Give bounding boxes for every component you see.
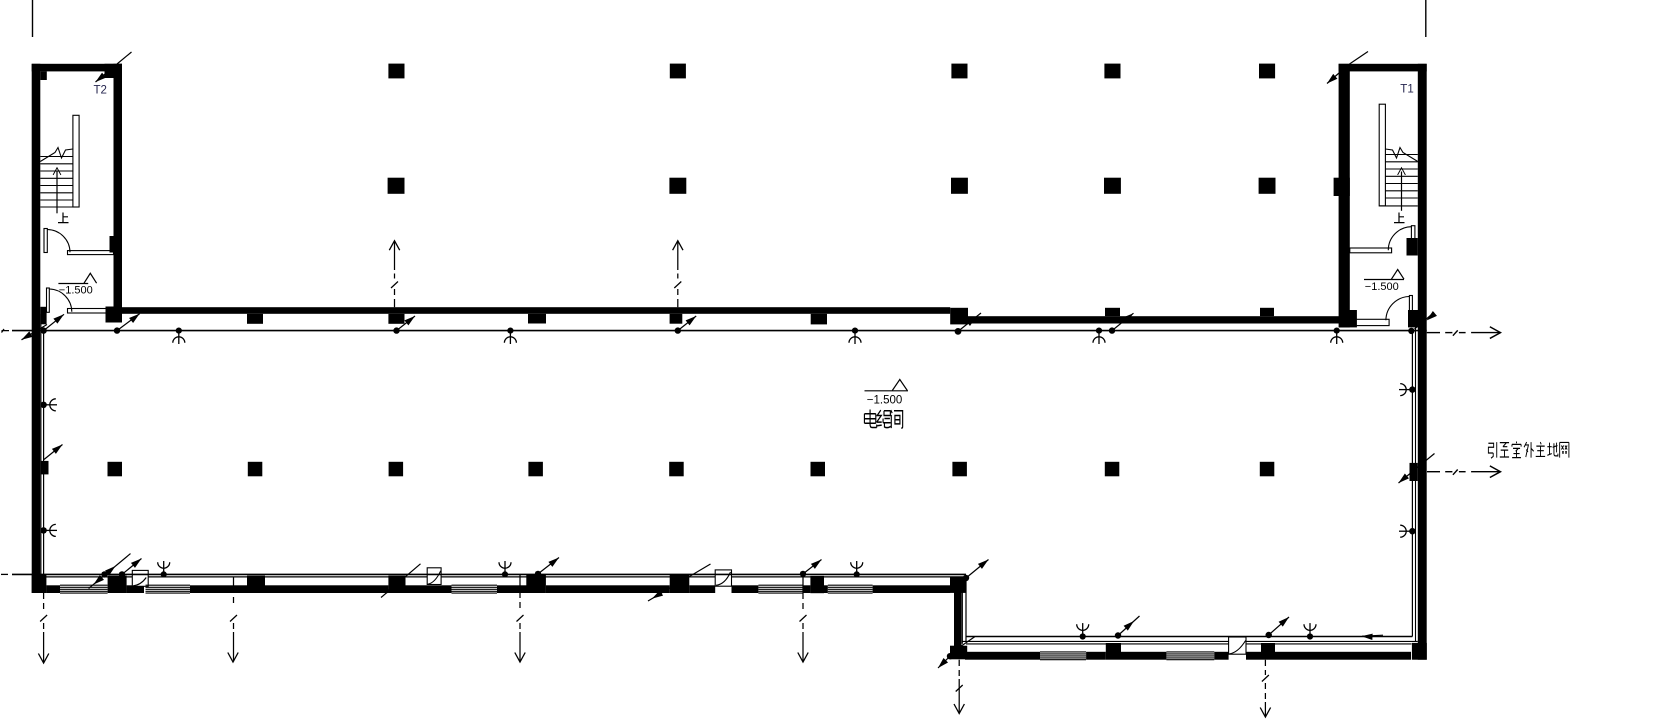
connection arrow up-right x122 [112, 559, 142, 583]
long diagonal through wall at x397 [381, 564, 421, 598]
缆 [877, 410, 891, 428]
corner connection arrows at T1 top-left [1350, 52, 1369, 65]
ground terminal bottom wall x856.7 [851, 561, 863, 578]
column block on right wall mid [1410, 463, 1418, 481]
地 [1547, 443, 1558, 456]
wall face lines lower section (double) [962, 641, 1418, 644]
door panel symbol d2 [427, 568, 441, 585]
riser arrow down x520 [517, 574, 524, 661]
window hatch w1 [60, 585, 108, 593]
ground terminal bottom wall x503.5 [499, 561, 511, 578]
column in bottom wall x397 [388, 576, 405, 593]
door T1 middle: threshold [1350, 248, 1392, 253]
door T2 middle: threshold [68, 251, 114, 255]
column below wall C2 [388, 314, 404, 324]
node: dot left wall y404.8 [40, 402, 46, 408]
引 [1488, 442, 1496, 458]
主 [1536, 442, 1545, 456]
column in bottom wall x536 [526, 575, 546, 593]
column row2 x1267 [1259, 178, 1276, 194]
node dot at step bottom corner [947, 653, 953, 659]
至 [1500, 443, 1509, 457]
corner connection arrows at T2 top-right [117, 52, 132, 64]
node dot right wall y531.2 [1409, 528, 1415, 534]
wire: right wall vertical conductor [1411, 331, 1413, 637]
connection arrow up-right x1268.7 [1269, 617, 1289, 635]
ground terminal left wall y530.4 [41, 524, 58, 536]
door T2 bottom: threshold [68, 309, 109, 314]
wall: lower bottom corner block left [950, 646, 967, 660]
column above top wall right segment G2 [1105, 308, 1120, 316]
corner connection arrow at T1 bottom-right [1415, 313, 1435, 330]
column: T2 top-left inner notch [40, 71, 47, 80]
column row1 x678 [670, 64, 686, 79]
stair T1 rail [1379, 104, 1385, 206]
label 电缆间 (cable room) drawn glyphs [864, 410, 902, 429]
column in bottom wall x256 [247, 576, 265, 593]
svg-text:T2: T2 [94, 85, 107, 97]
column row1 x396 [388, 64, 404, 79]
node: dot x956.5 on top conductor [955, 328, 962, 335]
column row3 x1112 [1105, 462, 1120, 477]
wall: bottom band segment f [497, 585, 529, 593]
riser arrow down x803 [800, 574, 807, 661]
node dot x1268.7 lower wall [1266, 632, 1272, 638]
ground terminal lower wall x1310 [1304, 623, 1316, 640]
wire: right exit arrow y330.6 [1427, 330, 1501, 335]
small left arrow tick on lower conductor [1362, 635, 1383, 636]
column row3 x960 [952, 462, 967, 477]
column below wall F2 [811, 314, 827, 325]
wire: left exit dash y574.4 [1, 573, 8, 575]
connection arrow down-left at step bottom corner [938, 656, 950, 668]
label 上 (T1) [1394, 213, 1405, 223]
column row3 x1267 [1260, 462, 1275, 477]
node dot x803 bottom wall [800, 571, 806, 577]
wall: bottom-right corner block [1412, 643, 1427, 660]
wall: bottom band segment c [190, 585, 247, 593]
stair T2 rail [73, 115, 79, 207]
column row2 x959 [951, 178, 968, 194]
外 [1524, 442, 1534, 458]
window hatch w6 [1166, 652, 1214, 660]
stair T1 break line [1385, 148, 1417, 162]
connection arrow up-right x396.5 [397, 316, 416, 331]
column in bottom wall x117 [108, 576, 127, 593]
node dot x538 bottom wall [535, 571, 541, 577]
node dot x1118 lower wall [1115, 632, 1121, 638]
elevation marker T2: line [58, 283, 88, 285]
door T1 middle: swing arc [1388, 227, 1411, 251]
wall: T2 right wall [114, 64, 123, 323]
elevation marker T1: triangle [1391, 270, 1404, 280]
column in bottom wall x817 [810, 576, 824, 593]
ground terminal right wall y389.6 [1399, 384, 1416, 396]
label 引至室外主地网 drawn glyphs [1488, 442, 1569, 459]
svg-text:−1.500: −1.500 [867, 395, 903, 407]
connection arrow up-right x1112 [1112, 313, 1134, 330]
column in bottom wall x679 [670, 575, 690, 593]
column below wall B2 [247, 314, 263, 324]
column block on left wall mid [40, 461, 48, 475]
riser arrow down x959.2 [956, 660, 963, 713]
connection arrow up-right x1118 [1118, 616, 1140, 636]
ground terminal on top conductor x1336.7 [1331, 328, 1343, 345]
column: step block at top wall jog [950, 308, 968, 325]
wall: T1 top wall [1339, 64, 1427, 72]
网 [1560, 442, 1569, 457]
column: T1 second-row block on left wall [1334, 178, 1350, 196]
label 上 (T2) [58, 213, 69, 223]
column in lower wall x1268 [1261, 643, 1275, 660]
stair T2 steps [40, 157, 79, 208]
door T1 bottom: leaf [1409, 296, 1412, 321]
wall: bottom band segment d [265, 585, 388, 593]
wall: lower band segment c [1121, 652, 1166, 660]
电 [864, 410, 876, 428]
node: dot left wall y530.4 [40, 527, 46, 533]
elevation marker cable room: triangle [892, 380, 907, 391]
node: dot x396.5 on top conductor [393, 327, 399, 333]
door panel symbol d4 [1229, 637, 1246, 654]
connection arrow up-right at top-left corner [44, 314, 64, 330]
connection arrow up-right left wall mid [44, 445, 63, 460]
间 [891, 410, 903, 428]
wall: bottom band segment j [873, 585, 951, 593]
connection arrow up-right at step top corner [966, 560, 989, 579]
column row1 x1112 [1104, 64, 1120, 79]
ground terminal on top conductor x178.8 [173, 328, 185, 345]
wall: bottom band segment b [127, 585, 144, 593]
ground terminal right wall y531.2 [1399, 525, 1416, 537]
window hatch w5 [1040, 652, 1086, 660]
diagonal tick at step inner corner [960, 637, 975, 647]
column in lower wall x1113 [1106, 643, 1121, 660]
connection arrow up-right x677.8 [678, 316, 696, 331]
wall: bottom band segment i1 [732, 585, 759, 593]
column above top wall right segment H2 [1260, 308, 1274, 316]
wall: bottom band segment i2 [804, 585, 811, 593]
wall face line bottom-left section [40, 576, 966, 578]
wall: lower band segment b [1086, 652, 1106, 660]
door T1 bottom: swing arc [1386, 297, 1410, 321]
door T1 bottom: threshold [1350, 319, 1389, 325]
node: dot x677.8 on top conductor [675, 327, 681, 333]
wall: bottom band segment e [406, 585, 452, 593]
column: T2 bottom-right [106, 307, 123, 323]
column row3 x396 [389, 462, 404, 477]
column row1 x959 [951, 64, 967, 79]
column row3 x676 [669, 462, 684, 477]
column below wall D2 [528, 314, 546, 324]
grid line left top [32, 0, 34, 37]
column row3 x818 [811, 462, 826, 477]
door T2 bottom: leaf [47, 288, 50, 312]
column row3 x115 [108, 462, 123, 477]
column: T2 top-right corner [105, 64, 123, 78]
wall: bottom-left corner block [32, 574, 47, 593]
wall face line step inner2 [961, 592, 963, 643]
wire: bottom conductor left section y574.4 [12, 573, 966, 575]
long diagonal through wall at x679 [648, 564, 711, 601]
elevation marker T2: triangle [84, 273, 97, 283]
wire: left wall vertical conductor [43, 331, 45, 575]
riser arrow up x677.8 [674, 241, 681, 307]
column row3 x536 [528, 462, 543, 477]
室 [1512, 442, 1521, 458]
window hatch w3b [758, 585, 803, 593]
wall: T1 left wall [1339, 64, 1350, 328]
column: T1 bottom-right door jamb [1408, 310, 1421, 327]
node dot x104.5 bottom wall [101, 571, 107, 577]
wall: top wall right segment [968, 316, 1340, 323]
wall: bottom band segment g [546, 585, 670, 593]
svg-text:T1: T1 [1400, 83, 1413, 95]
window hatch w4 [828, 585, 873, 593]
riser arrow up x396.5 [391, 241, 398, 307]
stair T1 up arrow [1401, 172, 1403, 211]
left wall face line [40, 314, 42, 577]
node: dot at right wall junction [1408, 328, 1414, 334]
wall: step vertical wall [954, 592, 962, 656]
wire: left exit dash y330.6 [2, 329, 10, 333]
riser arrow down x1265.4 [1262, 660, 1269, 717]
column below wall E2 [670, 314, 683, 324]
wall face line step inner [965, 577, 967, 642]
wall: right outer wall [1418, 64, 1427, 660]
svg-text:−1.500: −1.500 [1365, 281, 1399, 293]
connection arrow up-right x956.5 [958, 313, 981, 331]
wall: bottom band segment a [46, 585, 60, 593]
connection arrow down-left right wall mid [1399, 454, 1435, 484]
ground terminal left wall y404.8 [41, 399, 58, 411]
window hatch w2 [146, 585, 191, 593]
wall: top wall left segment [121, 307, 950, 314]
door panel symbol d3 [715, 570, 731, 586]
elevation marker cable room: line [865, 390, 909, 392]
stair T2 break line [40, 148, 73, 162]
window hatch w3 [452, 585, 498, 593]
wire: main horizontal conductor y330.6 [12, 330, 1427, 332]
door T2 middle: leaf [44, 229, 47, 253]
connection arrow up-right x117 [117, 314, 140, 331]
ground terminal on top conductor x510.4 [504, 328, 516, 345]
ground terminal on top conductor x855 [849, 328, 861, 345]
connection arrow double at x104.5 [89, 554, 131, 589]
node dot at step top corner [963, 575, 969, 581]
stair T2 up arrow [56, 172, 58, 214]
connection arrow down-left at top-left corner [22, 325, 48, 340]
node: top-left corner junction [40, 327, 46, 333]
riser arrow down x43.6 [40, 593, 47, 663]
elevation marker T1: line [1364, 279, 1404, 281]
connection arrow up-right x538 [538, 558, 559, 574]
stair T1 steps [1379, 155, 1418, 206]
wall: bottom band segment i3 [824, 585, 828, 593]
riser arrow down x233 [230, 577, 237, 662]
door T1 middle: leaf [1411, 226, 1415, 251]
door T2 bottom: swing arc [49, 289, 72, 312]
wall: lower band segment f [1275, 652, 1411, 660]
door panel symbol d1 [132, 570, 148, 586]
column row1 x1267 [1259, 64, 1275, 79]
column: door jamb at building top-left corner [40, 307, 46, 325]
column row2 x678 [669, 178, 686, 194]
column row3 x255 [248, 462, 262, 477]
ground terminal bottom wall x163.7 [158, 561, 170, 578]
column row2 x396 [388, 178, 405, 194]
connection arrow up-right x803 [803, 560, 822, 574]
column: T1 door jamb block right wall [1407, 238, 1418, 256]
column row2 x1112 [1104, 178, 1121, 194]
node dot right wall y389.6 [1409, 386, 1415, 392]
column at step top corner [950, 578, 966, 593]
node dot x122 bottom wall [119, 571, 125, 577]
grid line right top [1425, 0, 1427, 37]
door T2 middle: swing arc [47, 230, 70, 253]
column: T1 left wall bottom block [1340, 310, 1357, 327]
column: T2 right wall middle block [110, 236, 123, 253]
wall: lower band segment a [965, 652, 1040, 660]
ground terminal lower wall x1082.7 [1077, 623, 1089, 640]
right wall face line [1415, 327, 1417, 641]
node: dot x1112 on top conductor [1109, 327, 1115, 333]
wall: T2 top wall [32, 64, 122, 72]
node: dot x117 on top conductor [114, 327, 120, 333]
wire: lower section conductor y636.5 [966, 636, 1412, 638]
wall: lower band segment d [1214, 652, 1228, 660]
ground terminal on top conductor x1099 [1093, 328, 1105, 345]
wall: left outer wall [32, 64, 41, 593]
wire: right exit arrow y471.7 [1427, 470, 1501, 475]
wall: lower band segment e [1246, 652, 1261, 660]
wall: bottom band segment h [689, 585, 715, 593]
